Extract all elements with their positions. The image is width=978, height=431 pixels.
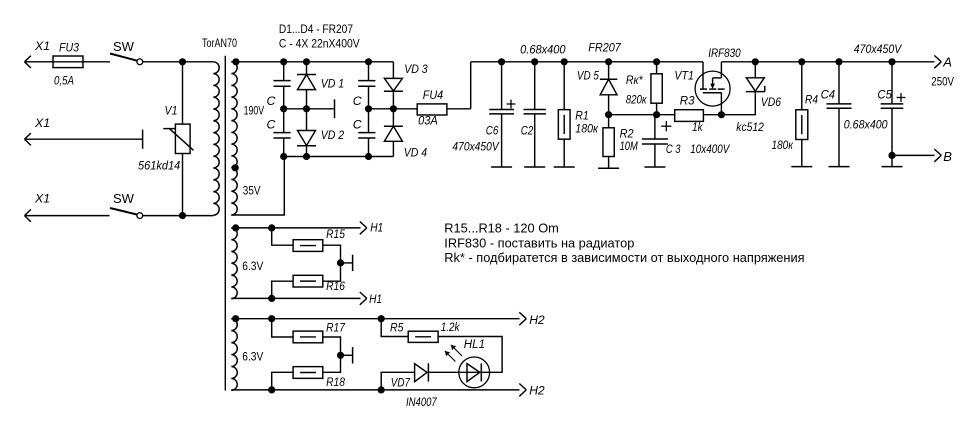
svg-text:6.3V: 6.3V	[242, 352, 263, 364]
svg-text:10x400V: 10x400V	[690, 142, 730, 156]
svg-text:IRF830: IRF830	[708, 46, 741, 60]
svg-text:03A: 03A	[418, 113, 438, 127]
svg-text:R18: R18	[326, 375, 345, 389]
svg-text:R16: R16	[326, 279, 345, 293]
svg-text:R5: R5	[390, 321, 404, 335]
svg-text:C: C	[353, 117, 362, 131]
svg-text:190V: 190V	[244, 106, 265, 118]
svg-text:R3: R3	[680, 93, 695, 107]
svg-text:180к: 180к	[575, 122, 599, 136]
svg-text:TorAN70: TorAN70	[202, 38, 237, 50]
svg-text:SW: SW	[113, 39, 135, 54]
svg-text:1k: 1k	[692, 120, 703, 134]
svg-text:R15: R15	[326, 227, 345, 241]
svg-text:6.3V: 6.3V	[242, 261, 263, 273]
svg-text:VD 1: VD 1	[321, 77, 345, 91]
svg-text:H1: H1	[370, 221, 383, 235]
svg-text:HL1: HL1	[464, 337, 485, 351]
svg-text:X1: X1	[34, 39, 50, 53]
svg-text:VD 2: VD 2	[321, 128, 345, 142]
svg-text:FU4: FU4	[423, 88, 444, 102]
svg-text:R17: R17	[326, 321, 346, 335]
svg-text:VT1: VT1	[674, 69, 694, 83]
svg-text:SW: SW	[113, 191, 135, 206]
svg-text:X1: X1	[34, 116, 50, 130]
svg-text:C2: C2	[521, 124, 534, 138]
svg-text:FU3: FU3	[59, 41, 79, 55]
svg-text:VD6: VD6	[761, 95, 781, 109]
svg-text:IN4007: IN4007	[406, 395, 438, 409]
svg-text:C6: C6	[486, 124, 499, 138]
svg-text:820к: 820к	[626, 93, 648, 107]
svg-text:B: B	[943, 149, 952, 164]
svg-text:X1: X1	[34, 192, 50, 206]
svg-text:R4: R4	[805, 93, 818, 107]
svg-text:470x450V: 470x450V	[452, 140, 500, 154]
svg-text:VD7: VD7	[391, 375, 411, 389]
svg-text:35V: 35V	[243, 186, 261, 198]
svg-text:1.2k: 1.2k	[441, 320, 460, 334]
svg-text:kc512: kc512	[736, 120, 764, 134]
svg-text:C: C	[353, 94, 362, 108]
svg-text:FR207: FR207	[588, 40, 622, 54]
svg-text:D1...D4 - FR207: D1...D4 - FR207	[279, 24, 353, 36]
svg-text:250V: 250V	[931, 76, 954, 88]
svg-text:0.68x400: 0.68x400	[844, 118, 888, 132]
svg-text:V1: V1	[165, 103, 178, 117]
svg-text:180к: 180к	[772, 138, 794, 152]
svg-text:Rk* - подбиратется в зависимос: Rk* - подбиратется в зависимости от выхо…	[444, 250, 804, 265]
svg-text:0,5A: 0,5A	[54, 74, 74, 88]
svg-text:H2: H2	[529, 384, 545, 398]
svg-text:VD 4: VD 4	[404, 146, 428, 160]
svg-text:C - 4X 22nX400V: C - 4X 22nX400V	[279, 39, 360, 51]
svg-text:C: C	[267, 117, 276, 131]
svg-text:C: C	[267, 94, 276, 108]
svg-text:C5: C5	[877, 88, 892, 102]
svg-text:H1: H1	[369, 292, 382, 306]
svg-text:Rк*: Rк*	[626, 73, 644, 87]
svg-text:R1: R1	[575, 109, 589, 123]
svg-text:10M: 10M	[620, 139, 639, 153]
svg-text:A: A	[942, 55, 952, 70]
svg-text:VD 3: VD 3	[404, 62, 428, 76]
svg-text:R15...R18 - 120 Om: R15...R18 - 120 Om	[444, 221, 559, 236]
svg-text:VD 5: VD 5	[577, 69, 599, 83]
svg-text:C4: C4	[821, 88, 836, 102]
svg-text:470x450V: 470x450V	[854, 42, 903, 56]
svg-text:H2: H2	[529, 313, 545, 327]
svg-text:561kd14: 561kd14	[138, 159, 180, 173]
svg-text:C 3: C 3	[666, 142, 681, 156]
svg-text:0.68x400: 0.68x400	[520, 43, 566, 57]
svg-text:IRF830 - поставить на радиатор: IRF830 - поставить на радиатор	[444, 236, 634, 251]
